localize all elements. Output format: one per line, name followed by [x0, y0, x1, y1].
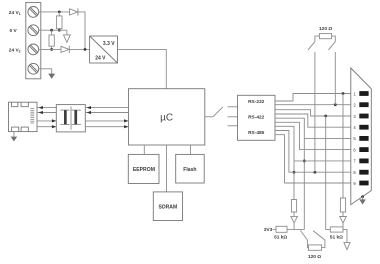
wire left termination vertical — [314, 52, 316, 172]
wire uC to EEPROM — [143, 145, 145, 154]
switch arm left (top termination) — [308, 42, 315, 50]
wire 24V1 from terminal 1 to diode D1 — [39, 11, 70, 13]
wire left lead of top termination — [315, 36, 320, 42]
wire uC to serial interface bus — [205, 116, 213, 118]
svg-text:51 kΩ: 51 kΩ — [274, 234, 287, 240]
screw terminal 1 (24 V1) — [28, 6, 39, 17]
node: junction dot 0V/R2 — [50, 29, 53, 32]
wire triangle to 51k rail — [342, 223, 344, 229]
wire DC/DC output to uC top — [118, 49, 167, 88]
wire transformer-uC RX1 — [85, 120, 128, 122]
wire RJ45-transformer pair TX2 — [37, 112, 56, 114]
svg-text:24 V: 24 V — [95, 55, 106, 61]
node dot w5/pin7 — [303, 160, 306, 163]
wire arm to 120 Ohm — [307, 240, 308, 248]
pin 6 contact — [359, 147, 368, 152]
wire transformer-uC TX2 — [85, 112, 128, 114]
node dot pin8/termination — [314, 171, 317, 174]
wire RJ45-transformer pair RX1 — [37, 120, 56, 122]
svg-text:EEPROM: EEPROM — [133, 167, 155, 173]
wire bus stub 1 — [228, 106, 238, 108]
wire pin 5 branch — [304, 137, 351, 139]
wire w7 down — [275, 126, 294, 199]
wire w3 to pin 3 — [275, 110, 351, 116]
svg-text:Flash: Flash — [183, 167, 196, 173]
svg-text:0 V: 0 V — [10, 28, 18, 34]
wire bias chain right (pin 1) vertical — [342, 94, 344, 199]
pin 7 contact — [359, 159, 368, 164]
node: junction dot R1/0V — [58, 29, 61, 32]
wire bias chain left (pins 7/8) resistor — [291, 200, 296, 213]
svg-text:RS-422: RS-422 — [248, 115, 265, 121]
screw terminal 4 (FE) — [28, 63, 39, 74]
switch arm right (top termination) — [328, 42, 335, 50]
D-SUB 9 connector outline — [351, 68, 372, 205]
ground FE arrow — [48, 74, 55, 79]
resistor 120 Ohm top — [319, 34, 331, 39]
svg-text:3.3 V: 3.3 V — [103, 41, 115, 47]
wire RJ45-transformer pair TX1 — [37, 107, 56, 109]
svg-text:RS-485: RS-485 — [248, 130, 265, 136]
wire from D1 to corner, down to 24V2 rail — [78, 12, 85, 50]
pin 3 contact — [359, 114, 368, 119]
diode D2 — [61, 46, 69, 53]
screw terminal 2 (0 V) — [28, 25, 39, 36]
wire transformer-uC RX2 — [85, 126, 128, 128]
node dot w7/pin8 — [293, 171, 296, 174]
resistor right bias (vertical) — [340, 198, 345, 212]
open arrow left bias — [291, 216, 298, 223]
resistor R1 (vertical, between 24V1 and 0V) — [57, 12, 62, 30]
EEPROM memory U2 — [128, 154, 159, 183]
pin 9 contact — [359, 181, 368, 186]
Ethernet isolation transformer T1 — [56, 105, 85, 132]
SDRAM memory U4 — [153, 192, 182, 221]
wire transformer-uC TX1 — [85, 107, 128, 109]
wire pin 7 branch — [294, 160, 351, 162]
wire 3V3 lead — [273, 228, 276, 230]
wire 51k right to ground — [343, 229, 347, 242]
node dot pin1/bias — [342, 92, 345, 95]
pin 5 contact — [359, 136, 368, 141]
pin 2 contact — [359, 102, 368, 107]
wire w8 to pin 8 — [275, 131, 351, 173]
pin 4 contact — [359, 125, 368, 130]
screw terminal 3 (24 V2) — [28, 44, 39, 55]
wire FE terminal to functional earth — [39, 69, 52, 74]
wire from D2 into DC/DC converter — [69, 48, 89, 50]
suppressor diode D3 (0V rail down to 24V2 rail) — [64, 30, 71, 42]
bus slash — [213, 107, 223, 117]
svg-text:120 Ω: 120 Ω — [319, 26, 332, 32]
node: junction dot R2/24V2 — [50, 48, 53, 51]
connector shield ground — [359, 195, 366, 204]
microcontroller U1 — [129, 89, 205, 145]
wire 24V2 from terminal 3 to diode D2 — [39, 48, 61, 50]
diode D1 — [70, 8, 78, 15]
svg-text:RS-232: RS-232 — [248, 99, 265, 105]
resistor 51 kOhm right — [330, 227, 343, 232]
DC/DC converter 24V/3.3V — [90, 36, 118, 63]
svg-text:µC: µC — [160, 112, 173, 123]
wire w9 to pin 9 — [275, 135, 351, 183]
node dot pin3/bias — [324, 115, 327, 118]
wire right termination vertical — [334, 52, 336, 105]
node: junction dot 24V1/R1 — [58, 11, 61, 14]
resistor 51 kOhm left — [276, 226, 287, 232]
wire 0V from terminal 2 — [39, 29, 67, 31]
RJ45 pin contacts hatch — [30, 109, 34, 123]
terminal block X1 — [26, 3, 41, 79]
Flash memory U3 — [176, 154, 205, 183]
svg-text:SDRAM: SDRAM — [159, 205, 178, 211]
wire uC to SDRAM — [166, 145, 168, 192]
wire 3V3 rail — [287, 228, 305, 230]
wire triangle to 3V3 rail — [293, 223, 295, 230]
wire uC to Flash — [190, 145, 192, 154]
node dot pin2/termination — [334, 103, 337, 106]
ground open arrow bottom right — [344, 243, 350, 250]
svg-text:51 kΩ: 51 kΩ — [330, 234, 343, 240]
svg-text:3V3: 3V3 — [264, 227, 273, 233]
wire w4 to pin 4 — [275, 114, 351, 127]
open arrow right bias — [340, 217, 347, 224]
resistor 120 Ohm bottom — [309, 245, 322, 250]
wire bus stub 3 — [228, 125, 238, 127]
wire w5 down — [275, 118, 304, 229]
wire RJ45-transformer pair RX2 — [37, 126, 56, 128]
wire 120 Ohm right lead — [322, 240, 325, 248]
node: junction dot 24V rail — [84, 48, 87, 51]
ground arrow under RJ45 — [11, 132, 18, 142]
wire right rail vertical (from pin 3) — [326, 116, 331, 229]
switch arm bottom right — [313, 231, 325, 240]
RJ45 jack — [9, 102, 38, 131]
svg-text:120 Ω: 120 Ω — [308, 254, 321, 260]
pin 1 contact — [359, 91, 368, 96]
switch arm bottom left — [300, 230, 307, 240]
wire w1 to pin 1 — [275, 94, 351, 102]
wire to triangle — [293, 212, 295, 216]
wire w6 to pin 6 — [275, 122, 351, 149]
wire to triangle — [342, 212, 344, 217]
serial interface block RS-232/RS-422/RS-485 — [238, 95, 276, 140]
wire right lead of top termination — [332, 36, 336, 42]
pin 8 contact — [359, 170, 368, 175]
resistor R2 (vertical, between 0V and 24V2) — [49, 30, 54, 49]
wire bus stub 2 — [228, 116, 238, 118]
wire w2 to pin 2 — [275, 104, 351, 106]
